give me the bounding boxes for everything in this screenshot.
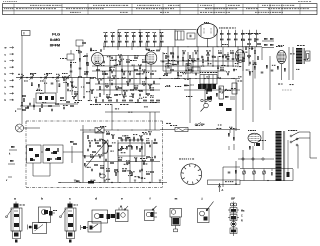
svg-text:m: m xyxy=(175,196,178,200)
svg-text:j: j xyxy=(201,196,203,200)
svg-text:GF: GF xyxy=(231,196,235,200)
svg-text:w: w xyxy=(5,47,7,50)
svg-text:C: C xyxy=(241,215,243,218)
svg-text:R: R xyxy=(241,220,243,223)
svg-text:b: b xyxy=(41,196,43,200)
svg-text:III=FM: III=FM xyxy=(50,43,60,47)
svg-text:I=LG: I=LG xyxy=(52,33,60,37)
svg-text:A: A xyxy=(222,188,224,192)
svg-text:I: I xyxy=(24,32,25,36)
svg-text:II=MG: II=MG xyxy=(50,38,60,42)
svg-text:d: d xyxy=(95,196,97,200)
svg-text:f: f xyxy=(150,196,151,200)
